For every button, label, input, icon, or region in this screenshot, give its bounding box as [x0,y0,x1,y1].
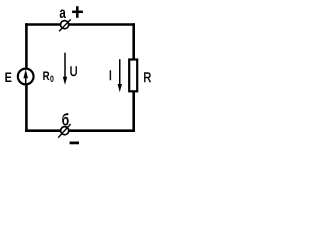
svg-text:0: 0 [50,74,54,84]
svg-text:I: I [109,68,112,84]
resistor R [129,60,137,92]
terminal node b [61,127,69,135]
voltage arrow U [64,53,66,78]
current arrow I [119,59,121,85]
minus sign [70,141,79,144]
svg-text:E: E [5,70,12,86]
wire right [132,23,135,132]
plus sign [72,11,83,14]
wire left [25,23,28,132]
svg-text:б: б [62,112,70,130]
wire top (a node to corners) [25,23,135,26]
svg-text:a: a [59,3,66,21]
svg-text:R: R [143,70,151,86]
svg-text:R: R [43,70,50,83]
wire bottom (b node to corners) [25,129,135,132]
EMF source E (circle with arrow) [18,69,34,85]
svg-text:U: U [70,64,78,80]
terminal node a [61,21,69,29]
